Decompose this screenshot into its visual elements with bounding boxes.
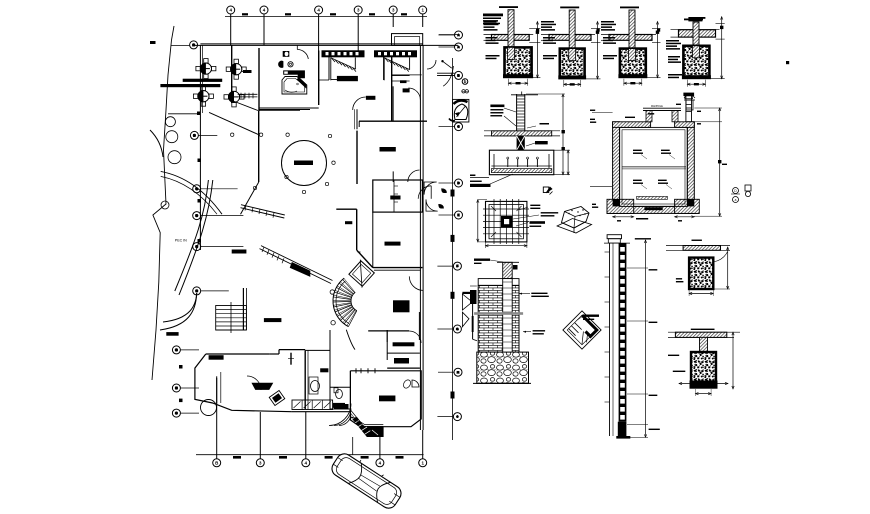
furniture mark	[320, 368, 328, 372]
svg-text:MANHOLE: MANHOLE	[651, 105, 663, 108]
center rooms walls	[319, 80, 423, 342]
grid bubble F left	[193, 287, 229, 295]
pcc label	[526, 141, 548, 146]
furniture mark	[380, 147, 396, 152]
north arrow mark	[543, 187, 552, 195]
furniture mark	[379, 396, 395, 402]
small footing B dims	[679, 332, 734, 396]
wc fixtures bottom left room	[334, 388, 342, 399]
column below plinth (dark)	[517, 136, 525, 150]
small footing A texts	[676, 240, 702, 283]
footing pad with rebar	[489, 150, 553, 175]
small wall squares	[179, 112, 201, 403]
kitchen sink and counter	[309, 377, 320, 394]
curved entrance steps	[329, 404, 351, 426]
strip dims right	[627, 238, 660, 437]
furniture mark	[366, 96, 376, 100]
bay window right lower	[462, 292, 477, 341]
stair landing diamond	[349, 252, 374, 288]
grid bubble 4	[315, 6, 323, 51]
bottom grid bubble 4	[302, 412, 310, 467]
table	[193, 86, 213, 106]
furniture mark	[403, 88, 410, 92]
small footing A box	[689, 252, 727, 289]
small footing B column stub	[700, 337, 708, 352]
small double-circle mark	[462, 90, 469, 93]
footing plan leader texts	[513, 205, 558, 227]
grid bubble A left	[190, 41, 198, 49]
stair well walls dining	[216, 288, 247, 330]
tick square	[786, 61, 789, 64]
grid bubble B right	[439, 71, 463, 79]
interior walls top band	[232, 45, 427, 267]
tank bottom screed	[637, 197, 668, 211]
furniture mark	[232, 250, 247, 254]
right dimension line with column ticks	[451, 58, 455, 440]
bottom grid bubble 1	[419, 430, 427, 467]
grid bubble I left	[172, 409, 199, 417]
tank right dim	[694, 108, 727, 216]
grid bubble 3	[354, 6, 362, 51]
bottom grid bubble 4	[376, 437, 384, 467]
plinth beam hatched band	[484, 131, 560, 136]
grid bubble H left	[172, 384, 199, 392]
spiral staircase	[330, 278, 357, 349]
strip body	[605, 243, 631, 439]
furniture mark	[390, 196, 400, 200]
floor plan: top dimension line	[225, 13, 427, 16]
driveway curves	[150, 130, 222, 330]
bay planter with plant right upper	[449, 99, 469, 122]
big black blob store	[393, 300, 410, 312]
tank rebar text	[658, 180, 672, 189]
rcc column with stirrups	[511, 92, 538, 132]
furniture mark	[209, 355, 224, 360]
wall sec leader texts	[519, 293, 549, 297]
grid bubble G left	[172, 346, 199, 354]
vent pipe detail below footing4	[684, 94, 695, 111]
furniture mark	[345, 221, 352, 224]
window strips on top wall	[322, 50, 365, 57]
door arcs	[247, 45, 446, 390]
grid bubble 3	[389, 6, 397, 27]
window in wall near tables	[238, 93, 258, 99]
tank top slab	[613, 122, 695, 128]
dpc gray band	[474, 312, 523, 315]
small circle mark hall	[332, 161, 335, 164]
black dash right of table 2	[243, 70, 252, 73]
footing detail WC-1	[484, 6, 541, 86]
toilet rooms bottom center walls	[330, 330, 420, 409]
footing detail WC-3	[601, 7, 661, 86]
small label b right	[462, 79, 468, 85]
boundary bar bottom left	[166, 332, 178, 336]
footing 4 top text	[688, 17, 705, 21]
tank inner liner	[620, 127, 688, 206]
living room walls	[195, 350, 351, 412]
dim lines right of footing detail	[526, 94, 570, 175]
grid bubble E right	[439, 211, 463, 219]
footing plan dims	[477, 200, 527, 248]
tank rebar text	[633, 180, 647, 189]
footing detail WC-4	[666, 17, 725, 87]
fence line top-left	[168, 113, 200, 115]
kitchen walls	[305, 330, 330, 409]
tree	[166, 131, 178, 143]
vent pipe tank	[683, 93, 694, 122]
bedroom 2 wardrobe and hatch	[384, 58, 409, 84]
grid bubble C left	[193, 185, 238, 193]
grid bubble 4	[227, 6, 235, 45]
exterior walls	[194, 34, 458, 430]
tank bottom dims	[613, 216, 695, 222]
small footing B slab	[668, 332, 740, 337]
grid stub 352.7	[352, 437, 354, 455]
tank bottom slab	[607, 199, 699, 213]
grid bubble I right	[437, 413, 461, 421]
table	[226, 59, 246, 79]
kitchen counter cells	[292, 400, 333, 410]
tank left wall	[613, 122, 620, 214]
grid bubble B left	[190, 131, 217, 139]
corner stair detail diamond	[563, 311, 601, 349]
dressing room fixtures	[402, 379, 419, 390]
bottom grid bubble 3	[256, 412, 264, 467]
tank water lines	[622, 167, 686, 169]
tick square	[657, 29, 660, 32]
footing detail WC-2	[541, 7, 601, 87]
entrance steps hatched	[351, 411, 383, 437]
tank right wall	[687, 122, 694, 214]
wall sec small left marks	[470, 286, 477, 304]
grid bubble A right	[439, 31, 463, 39]
corner stair texts	[576, 315, 599, 322]
bottom dimension line	[196, 455, 424, 459]
tank rebar text	[661, 150, 675, 159]
furniture mark	[333, 403, 345, 408]
section marker D right	[745, 185, 751, 197]
car	[329, 449, 405, 512]
central column in wall	[503, 279, 513, 379]
tank title bar	[636, 218, 648, 220]
wall sec texts top	[474, 259, 503, 265]
bedroom 1 wardrobe and hatch	[331, 58, 358, 82]
diagonal dining wall	[209, 100, 263, 214]
svg-text:b: b	[464, 79, 467, 84]
grid bubble C right	[439, 123, 463, 131]
bottom grid bubble B	[213, 378, 221, 467]
upper terrace rail diagonal	[241, 205, 285, 218]
tank top texts	[625, 104, 681, 118]
master bedroom outline	[350, 368, 421, 426]
section marker D	[731, 188, 740, 203]
grid bubble D right	[439, 179, 463, 187]
isometric brick block	[557, 207, 592, 234]
small footing A dims	[689, 247, 730, 296]
furniture mark	[264, 318, 282, 322]
diagonal + arc near wall top right	[437, 60, 455, 86]
footing plan outer	[483, 199, 529, 244]
grid bubble G right	[437, 325, 461, 333]
grid bubble H right	[438, 368, 462, 376]
grid bubble 1	[419, 6, 427, 27]
grid bubble F right	[437, 262, 461, 270]
text PEC IN	[175, 239, 187, 243]
svg-text:PEC IN: PEC IN	[175, 239, 187, 243]
round element near entry	[201, 400, 217, 416]
furniture mark	[394, 358, 409, 364]
tick square	[597, 29, 600, 32]
furniture mark	[393, 342, 415, 346]
small footing B box	[690, 352, 718, 389]
table	[196, 59, 216, 79]
bath top-center fixtures	[279, 51, 307, 94]
small footing B texts	[668, 329, 715, 372]
grid bubble E left	[193, 243, 244, 251]
small footing A slab	[666, 246, 730, 251]
sofa living room	[252, 383, 273, 389]
brick masonry	[478, 279, 519, 352]
grid bubble A right	[439, 43, 463, 51]
footing bottom-left texts	[470, 174, 513, 187]
table	[224, 87, 244, 107]
tank left texts	[590, 110, 613, 208]
manhole cover	[643, 108, 681, 122]
tree	[161, 201, 169, 209]
footing detail texts right	[527, 123, 549, 128]
stone foundation	[473, 352, 531, 383]
strip top coping	[604, 235, 630, 243]
straight stair near dining	[216, 302, 247, 333]
footing detail texts left	[490, 105, 516, 127]
furniture mark	[385, 242, 401, 246]
rotated chair living	[269, 390, 285, 405]
dining big round table	[282, 133, 332, 194]
small mark top-left boundary	[150, 41, 156, 44]
tank rebar text	[633, 150, 647, 159]
tick square	[536, 29, 539, 32]
tree	[168, 151, 181, 164]
wall sec top column	[497, 262, 519, 278]
tree	[165, 117, 175, 127]
bold planter bars top-left	[160, 79, 222, 88]
ramp rails with black steps	[260, 246, 333, 284]
grid bubble 4	[260, 6, 268, 45]
site boundary left	[152, 26, 189, 380]
svg-text:a: a	[735, 198, 737, 202]
footing 1 top text	[483, 14, 503, 25]
grid bubble D left	[193, 212, 244, 220]
wc black rect	[334, 404, 349, 410]
